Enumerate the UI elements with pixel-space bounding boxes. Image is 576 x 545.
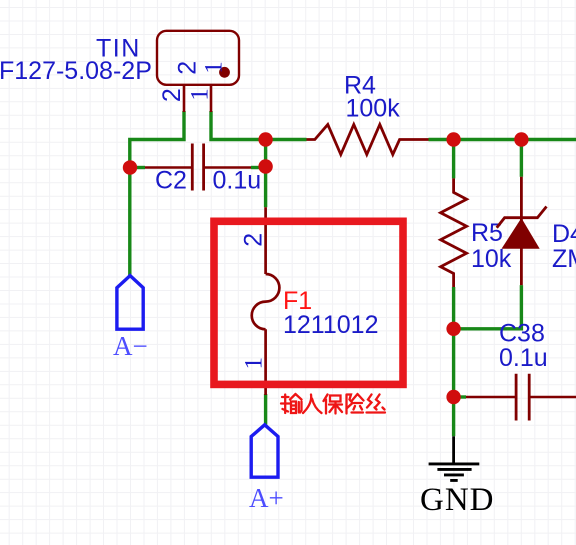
capacitor C2 right lead: [204, 166, 251, 169]
wire: connector pin2 stub down to bus: [130, 111, 184, 276]
wire: R5 bottom down to GND: [452, 287, 455, 436]
wire: D4 bottom corner to R5 line: [454, 285, 522, 329]
svg-text:1211012: 1211012: [283, 311, 378, 339]
junction dot R5/D4 return: [446, 322, 460, 336]
ground symbol bars: [429, 464, 480, 481]
svg-text:A+: A+: [249, 483, 284, 513]
svg-text:1: 1: [187, 88, 214, 101]
annotation red rectangle: [214, 221, 403, 384]
resistor R5: [441, 178, 467, 287]
port A+ pentagon: [251, 425, 278, 477]
wire: fuse bottom to A+ port: [264, 394, 267, 425]
wire: R5 branch from bus: [452, 140, 455, 179]
svg-text:1: 1: [200, 61, 227, 74]
capacitor C2 left lead: [145, 166, 192, 169]
junction dot GND/C38: [446, 390, 460, 404]
GND stem: [452, 436, 455, 464]
wire: C38 left green stub: [454, 395, 466, 398]
wire: D4 branch from bus: [520, 140, 523, 177]
junction dot bus/R5: [446, 132, 460, 146]
zener diode D4 lead: [520, 177, 523, 285]
svg-text:2: 2: [174, 61, 202, 75]
resistor R4: [307, 125, 429, 155]
svg-text:1: 1: [241, 357, 268, 370]
svg-text:C2: C2: [155, 167, 187, 195]
fuse F1 top lead: [264, 207, 267, 274]
connector pin 1 lead: [210, 85, 213, 112]
svg-text:2: 2: [240, 233, 268, 247]
wire: connector pin1 stub down then right along top bus: [211, 111, 307, 140]
svg-text:0.1u: 0.1u: [499, 344, 548, 372]
zener diode D4 cathode bar: [497, 207, 547, 228]
junction dot C2 right: [258, 159, 272, 173]
fuse F1 bottom lead: [264, 329, 267, 395]
connector pin 2 lead: [183, 85, 186, 112]
svg-text:2: 2: [158, 88, 186, 102]
zener diode D4 triangle: [502, 218, 540, 249]
junction dot bus/C2 branch: [258, 132, 272, 146]
capacitor C38 plates: [516, 374, 529, 421]
junction dot bus/D4: [514, 132, 528, 146]
svg-text:100k: 100k: [346, 95, 401, 123]
svg-text:ZMM: ZMM: [552, 245, 576, 273]
junction dot C2 left: [123, 160, 137, 174]
fuse F1 S-curve: [252, 274, 280, 329]
svg-text:R5: R5: [471, 219, 503, 247]
capacitor C38 left lead: [466, 396, 516, 399]
wire: top bus right of R4 to right edge: [429, 138, 576, 141]
svg-text:0.1u: 0.1u: [213, 167, 262, 195]
wire: C2 right green stub: [251, 166, 266, 169]
capacitor C2 plates: [192, 144, 203, 191]
svg-text:GND: GND: [420, 482, 495, 518]
wire: C2 left green stub: [130, 166, 145, 169]
connector polarity dot: [219, 67, 230, 78]
svg-text:F127-5.08-2P: F127-5.08-2P: [0, 57, 152, 85]
svg-text:10k: 10k: [471, 245, 512, 273]
capacitor C38 right lead: [529, 396, 576, 399]
connector U: TIN rounded body: [157, 31, 239, 85]
svg-text:D4: D4: [552, 220, 576, 248]
port A- pentagon: [117, 276, 143, 330]
svg-text:A−: A−: [113, 331, 148, 361]
wire: C2/fuse vertical branch: [264, 140, 267, 208]
